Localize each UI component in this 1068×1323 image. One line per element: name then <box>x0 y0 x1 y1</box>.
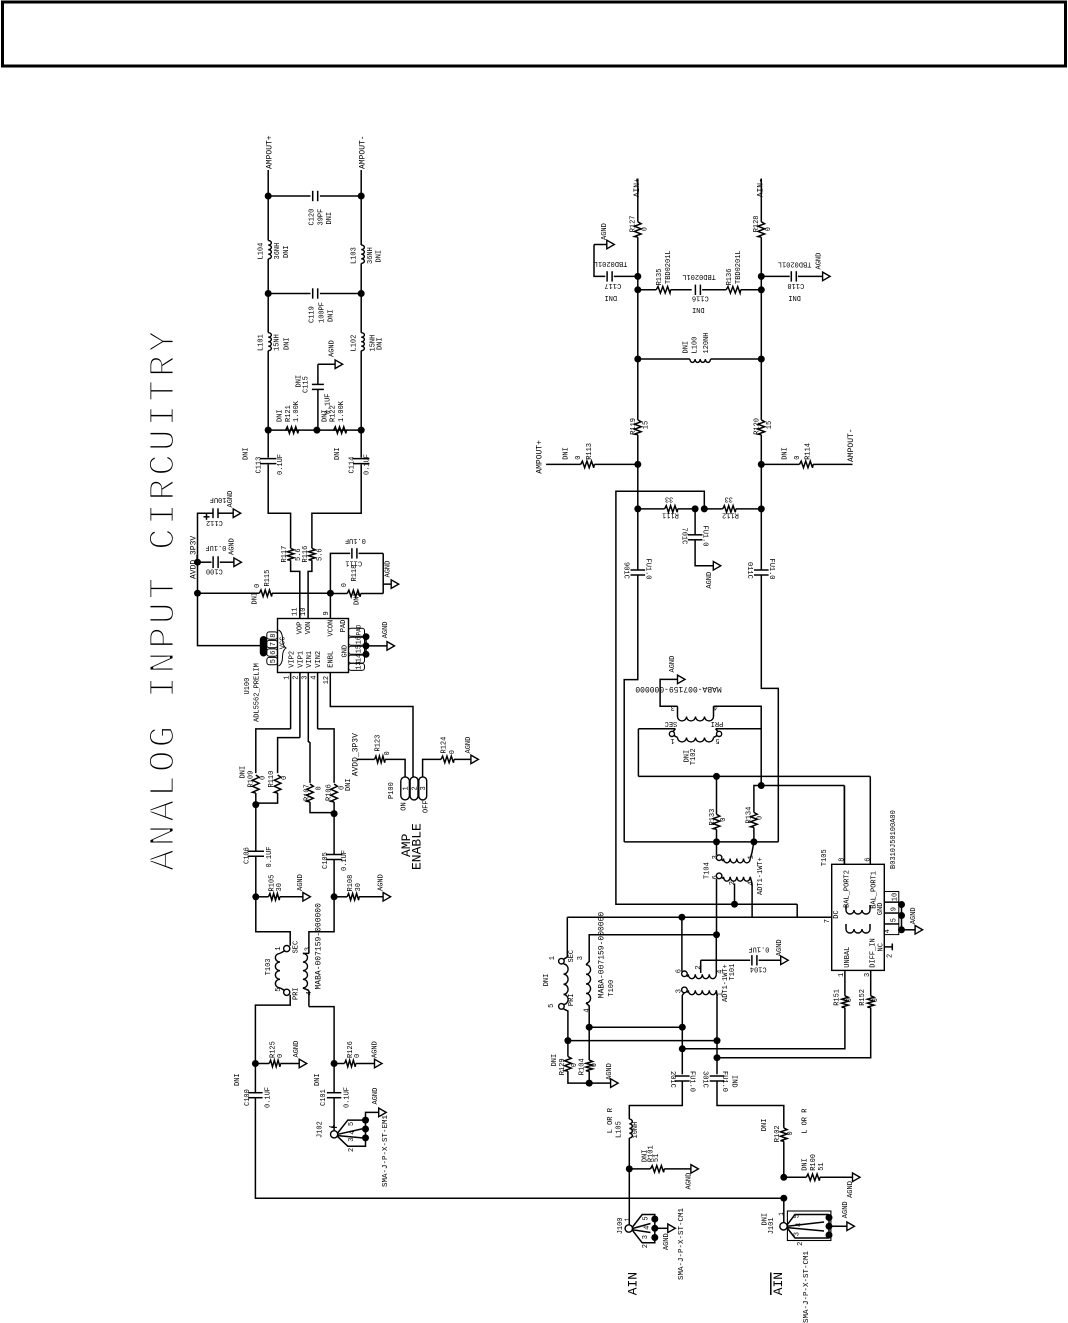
svg-text:L102: L102 <box>351 335 359 352</box>
svg-text:5: 5 <box>891 918 899 922</box>
svg-text:GND: GND <box>877 902 885 915</box>
ground AGND (T105) <box>915 926 923 935</box>
capacitor C102 0.1UF <box>675 1075 690 1077</box>
wire jog left to R117 <box>268 465 290 549</box>
header P100 pin 2 <box>410 777 418 800</box>
inductor L104 36NH DNI <box>268 241 271 259</box>
capacitor C100 0.1UF <box>198 561 212 563</box>
svg-text:AGND: AGND <box>372 1088 380 1105</box>
svg-text:R136: R136 <box>726 269 734 286</box>
capacitor C112 10UF (polarized) <box>198 513 214 562</box>
svg-text:FU1.0: FU1.0 <box>644 559 652 580</box>
inductor L101 15NH DNI <box>268 333 271 351</box>
capacitor C111 0.1UF loop <box>330 553 350 593</box>
svg-text:C113: C113 <box>256 457 264 474</box>
resistor R127 0 <box>635 222 642 237</box>
svg-text:3: 3 <box>712 855 720 859</box>
svg-text:1: 1 <box>284 676 292 680</box>
junction <box>634 505 641 512</box>
svg-text:AGND: AGND <box>601 223 609 240</box>
svg-text:DNI: DNI <box>252 592 260 605</box>
resistor R109 0 DNI <box>256 729 291 773</box>
inductor L105 10NH L OR R <box>629 1119 632 1138</box>
svg-text:DNI: DNI <box>692 305 705 313</box>
svg-text:R114: R114 <box>805 443 813 460</box>
capacitor C101 0.1UF DNI <box>327 1092 341 1094</box>
svg-text:R110: R110 <box>268 771 276 788</box>
svg-text:DNI: DNI <box>802 1158 810 1171</box>
junction <box>634 356 641 363</box>
U100 GND tie dots <box>363 633 370 640</box>
svg-text:DNI: DNI <box>234 1073 242 1086</box>
capacitor C106 0.1UF <box>248 850 264 852</box>
svg-text:AGND: AGND <box>816 253 824 270</box>
resistor R118 0 DNI <box>330 593 347 595</box>
svg-text:DNI: DNI <box>326 212 334 225</box>
node AIN+ <box>637 179 639 222</box>
svg-text:15: 15 <box>643 421 651 429</box>
svg-text:DNI: DNI <box>377 337 385 350</box>
wire top rail <box>268 195 310 197</box>
svg-text:AGND: AGND <box>706 572 714 589</box>
capacitor C110 0.1UF <box>760 509 762 570</box>
svg-text:SMA-J-P-X-ST-EM1: SMA-J-P-X-ST-EM1 <box>382 1114 390 1187</box>
capacitor C119 100PF DNI <box>312 288 314 298</box>
svg-text:R133: R133 <box>709 809 717 826</box>
svg-text:DNI: DNI <box>345 778 353 791</box>
svg-text:30: 30 <box>355 883 363 891</box>
svg-text:ENABLE: ENABLE <box>410 823 425 870</box>
svg-text:IND: IND <box>730 1075 738 1088</box>
resistor R119 15 <box>635 420 642 435</box>
svg-text:5: 5 <box>275 988 283 992</box>
svg-text:PRI: PRI <box>568 993 576 1006</box>
svg-text:C119: C119 <box>309 306 317 323</box>
wire R111 rail <box>638 508 665 510</box>
capacitor C115 0.1UF DNI <box>317 389 319 430</box>
svg-text:011C: 011C <box>745 562 753 579</box>
inductor L102 15NH DNI <box>361 333 364 351</box>
T105 pin 2 NC <box>884 946 892 948</box>
svg-text:FU1.0: FU1.0 <box>701 526 709 547</box>
svg-text:AGND: AGND <box>227 491 235 508</box>
svg-text:R102: R102 <box>774 1125 782 1142</box>
svg-text:DNI: DNI <box>376 250 384 263</box>
wire <box>637 464 639 509</box>
svg-text:DNI: DNI <box>243 447 251 460</box>
wire <box>637 359 639 420</box>
svg-text:0: 0 <box>575 456 583 460</box>
svg-text:ANALOG INPUT CIRCUITRY: ANALOG INPUT CIRCUITRY <box>144 328 185 871</box>
svg-text:C100: C100 <box>206 566 223 574</box>
wire L100 rail <box>638 358 690 360</box>
svg-text:NC: NC <box>878 943 886 951</box>
svg-text:AGND: AGND <box>465 737 473 754</box>
svg-text:AGND: AGND <box>382 621 390 638</box>
svg-text:901C: 901C <box>622 562 630 579</box>
pin 9 VCON <box>329 594 331 619</box>
svg-text:L103: L103 <box>351 247 359 264</box>
node AIN- <box>760 179 762 222</box>
ground AGND (R125) <box>299 1059 307 1068</box>
wire <box>637 276 639 289</box>
transformer T102 MABA-007159-000000 (DNI) <box>677 706 679 716</box>
svg-text:AGND: AGND <box>384 561 392 578</box>
capacitor C104 0.1UF <box>701 959 751 961</box>
inductor L103 36NH DNI <box>361 245 364 263</box>
ground AGND (U100) <box>387 642 395 651</box>
svg-text:R117: R117 <box>281 546 289 563</box>
svg-text:0: 0 <box>591 1063 599 1067</box>
svg-text:AGND: AGND <box>377 874 385 891</box>
svg-text:AGND: AGND <box>847 1181 855 1198</box>
svg-text:0.1UF: 0.1UF <box>341 850 349 871</box>
wire <box>637 435 639 465</box>
svg-text:11: 11 <box>291 608 299 616</box>
wire mid horizontal <box>624 841 778 843</box>
ground AGND (R126) <box>375 1059 383 1068</box>
wire AIN+ rail down <box>624 575 638 842</box>
T105 pin 3 DIFF_IN <box>870 970 872 995</box>
resistor R105 30 <box>256 896 269 898</box>
ground AGND (R105) <box>303 893 311 902</box>
svg-text:DNI: DNI <box>239 766 247 779</box>
wire <box>717 1081 784 1128</box>
svg-text:AGND: AGND <box>776 939 784 956</box>
svg-text:1: 1 <box>402 786 410 790</box>
junction <box>586 1080 593 1087</box>
resistor R135 TBD0201L <box>638 289 656 291</box>
svg-text:DNI: DNI <box>788 293 801 301</box>
svg-text:R115: R115 <box>264 570 272 587</box>
capacitor C120 39PF DNI <box>312 191 314 201</box>
svg-text:3: 3 <box>420 786 428 790</box>
svg-text:AMPOUT+: AMPOUT+ <box>536 440 545 474</box>
svg-text:3: 3 <box>304 947 312 951</box>
svg-text:T102: T102 <box>690 748 698 765</box>
svg-text:C106: C106 <box>243 847 251 864</box>
wire mid rail <box>268 293 310 295</box>
svg-text:1: 1 <box>328 1124 335 1128</box>
svg-text:DNI: DNI <box>334 447 342 460</box>
resistor R111 33 <box>665 506 678 513</box>
junction <box>713 773 720 780</box>
svg-text:AGND: AGND <box>328 340 336 357</box>
svg-text:1: 1 <box>624 1217 631 1221</box>
svg-text:DNI: DNI <box>314 1073 322 1086</box>
svg-text:R128: R128 <box>753 215 761 232</box>
wire <box>637 237 639 276</box>
svg-text:0: 0 <box>354 1054 362 1058</box>
svg-text:AGND: AGND <box>685 1173 693 1190</box>
svg-text:ENBL: ENBL <box>328 651 336 668</box>
node AMPOUT+ (wire) <box>546 463 581 465</box>
svg-text:R135: R135 <box>656 269 664 286</box>
svg-text:9: 9 <box>891 907 899 911</box>
svg-text:VIP2: VIP2 <box>289 651 297 668</box>
svg-text:OFF: OFF <box>422 800 430 813</box>
resistor R134 0 <box>754 786 761 813</box>
svg-text:AGND: AGND <box>910 907 918 924</box>
svg-text:L100: L100 <box>691 337 699 354</box>
resistor R128 0 <box>758 222 765 237</box>
svg-text:10: 10 <box>892 893 900 901</box>
wire AIN- rail down <box>761 575 778 842</box>
wire AVDD down to VCC <box>198 562 261 645</box>
ground AGND (R124) <box>471 755 479 764</box>
wire <box>254 1064 256 1094</box>
wire <box>629 1081 682 1120</box>
svg-text:PAD: PAD <box>355 624 362 635</box>
svg-text:0: 0 <box>341 583 349 587</box>
transformer T104 ADT1-1WT+ <box>716 842 718 855</box>
resistor R110 0 <box>278 738 300 774</box>
svg-text:0: 0 <box>254 584 262 588</box>
svg-text:0: 0 <box>787 1131 795 1135</box>
svg-text:AGND: AGND <box>669 656 677 673</box>
svg-text:15: 15 <box>356 645 364 653</box>
svg-text:0: 0 <box>315 786 323 790</box>
svg-text:33: 33 <box>665 495 673 503</box>
junction <box>265 193 272 200</box>
resistor R152 0 <box>867 996 874 1008</box>
resistor R112 33 <box>723 506 736 513</box>
svg-text:0.1UF: 0.1UF <box>264 1087 272 1108</box>
wire <box>256 897 290 946</box>
capacitor C116 TBD0201L DNI <box>694 285 696 295</box>
capacitor C105 0.1UF <box>326 854 342 856</box>
svg-text:10UF: 10UF <box>210 495 227 503</box>
svg-text:ADL5562_PRELIM: ADL5562_PRELIM <box>253 663 261 722</box>
T105 gnd dots <box>898 901 905 908</box>
wire <box>309 1007 334 1064</box>
junction <box>634 461 641 468</box>
svg-text:VOP: VOP <box>297 622 305 635</box>
svg-text:5.6: 5.6 <box>316 548 324 561</box>
svg-text:0: 0 <box>641 227 649 231</box>
svg-text:AGND: AGND <box>842 1201 850 1218</box>
svg-text:33: 33 <box>724 495 732 503</box>
svg-text:TBD0201L: TBD0201L <box>665 250 673 284</box>
svg-text:0: 0 <box>872 998 880 1002</box>
T105 pin 1 UNBAL <box>844 970 846 995</box>
svg-text:2: 2 <box>887 954 895 958</box>
U100 VCC pin boxes 8 7 6 5 <box>267 632 278 639</box>
junction <box>265 427 272 434</box>
node AMPOUT- (filter) <box>360 170 362 196</box>
svg-text:301C: 301C <box>700 1071 708 1088</box>
svg-text:R129: R129 <box>559 1058 567 1075</box>
svg-text:1: 1 <box>670 736 674 744</box>
junction <box>634 273 641 280</box>
U100 VCC bus blob <box>260 636 267 657</box>
wire <box>267 430 269 458</box>
svg-text:0.1UF: 0.1UF <box>343 1087 351 1108</box>
svg-text:MABA-007159-000000: MABA-007159-000000 <box>315 903 324 990</box>
junction <box>194 559 201 566</box>
junction <box>586 1024 593 1031</box>
svg-text:MABA-007159-000000: MABA-007159-000000 <box>635 684 722 693</box>
resistor R113 0 DNI <box>581 461 595 468</box>
svg-text:B0310J50100A00: B0310J50100A00 <box>890 810 898 869</box>
svg-text:T103: T103 <box>265 958 273 975</box>
junction <box>331 810 338 817</box>
svg-text:0.1UF: 0.1UF <box>345 536 366 544</box>
resistor R126 0 <box>334 1063 344 1065</box>
resistor R151 0 <box>842 996 849 1008</box>
junction <box>252 1060 259 1067</box>
border frame title block <box>3 2 1066 66</box>
capacitor C118 TBD0201L DNI <box>761 275 789 277</box>
svg-text:MABA-007159-000000: MABA-007159-000000 <box>597 912 606 999</box>
ground AGND (R104/R129) <box>611 1079 619 1088</box>
svg-text:1: 1 <box>838 973 846 977</box>
resistor R116 5.6 <box>309 548 316 560</box>
svg-text:R107: R107 <box>303 784 311 801</box>
resistor R115 0 DNI <box>259 590 272 597</box>
svg-text:T104: T104 <box>704 862 712 879</box>
svg-text:4: 4 <box>311 676 319 680</box>
wire <box>902 929 916 931</box>
capacitor C107 0.1UF <box>694 509 696 535</box>
svg-text:3: 3 <box>577 956 585 960</box>
inductor L100 120NH DNI <box>690 359 711 362</box>
resistor R125 0 <box>255 1063 269 1065</box>
wire T100 pin5 to R129 <box>564 1009 568 1057</box>
wire <box>628 1169 630 1225</box>
svg-text:L OR R: L OR R <box>607 1107 615 1133</box>
wire T100 pin4 to C102 <box>589 1026 682 1028</box>
svg-text:P100: P100 <box>388 782 396 799</box>
svg-text:TBD0201L: TBD0201L <box>778 260 812 268</box>
svg-text:C104: C104 <box>750 964 767 972</box>
svg-text:5: 5 <box>348 1122 356 1126</box>
svg-text:R121: R121 <box>285 405 293 422</box>
svg-text:R111: R111 <box>662 510 679 518</box>
wire <box>309 897 334 954</box>
wire <box>267 294 269 333</box>
svg-text:R113: R113 <box>586 443 594 460</box>
wire dc line <box>567 916 831 918</box>
junction T104 ct <box>731 901 738 908</box>
svg-text:6: 6 <box>865 858 873 862</box>
svg-text:AGND: AGND <box>293 1041 301 1058</box>
svg-text:AGND: AGND <box>228 538 236 555</box>
svg-text:39PF: 39PF <box>317 209 325 226</box>
junction <box>678 914 685 921</box>
svg-text:3: 3 <box>642 1235 650 1239</box>
svg-text:0: 0 <box>846 998 854 1002</box>
svg-text:7: 7 <box>270 642 278 646</box>
svg-text:5: 5 <box>794 1214 802 1218</box>
svg-text:3: 3 <box>348 1138 356 1142</box>
svg-text:2: 2 <box>642 1244 650 1248</box>
resistor R107 0 <box>308 741 310 743</box>
svg-text:4: 4 <box>748 881 756 885</box>
wire loop to T104 ct <box>616 491 735 904</box>
svg-text:2: 2 <box>729 881 737 885</box>
ground AGND (J101) <box>847 1222 855 1231</box>
svg-text:DNI: DNI <box>543 974 551 987</box>
ground AGND (C118) <box>823 272 831 281</box>
svg-text:9: 9 <box>323 611 331 615</box>
header P100 pin 1 <box>401 777 410 800</box>
svg-text:R112: R112 <box>722 510 739 518</box>
transformer T100 MABA-007159-000000 (sec DNI) <box>559 958 565 964</box>
svg-text:DNI: DNI <box>781 447 789 460</box>
svg-text:DNI: DNI <box>284 337 292 350</box>
svg-text:1.00K: 1.00K <box>293 400 301 422</box>
svg-text:30: 30 <box>276 883 284 891</box>
svg-text:AGND: AGND <box>606 1063 614 1080</box>
wire pin6 down <box>716 879 718 935</box>
svg-text:TBD0201L: TBD0201L <box>594 259 628 267</box>
svg-text:10: 10 <box>300 608 308 616</box>
wire T102 pin1 left <box>637 729 639 777</box>
svg-text:C112: C112 <box>206 518 223 526</box>
svg-text:1: 1 <box>778 1212 785 1216</box>
svg-text:DNI: DNI <box>551 1054 559 1067</box>
svg-text:R123: R123 <box>375 735 383 752</box>
wire <box>681 1027 683 1074</box>
pin 12 ENBL <box>330 673 413 777</box>
wire T102 pin4 down <box>714 706 762 785</box>
node AMPOUT+ (filter) <box>267 170 269 196</box>
junction <box>265 290 272 297</box>
svg-text:C116: C116 <box>692 294 709 302</box>
svg-text:0: 0 <box>259 776 267 780</box>
svg-text:T105: T105 <box>821 849 829 866</box>
svg-text:4: 4 <box>796 1223 804 1227</box>
resistor R121 1.00K DNI <box>286 427 299 434</box>
svg-text:AGND: AGND <box>663 1233 671 1250</box>
svg-text:100PF: 100PF <box>318 302 326 323</box>
T105 gnd pin boxes 10 9 5 4 <box>884 892 899 902</box>
svg-text:C105: C105 <box>322 852 330 869</box>
wire <box>783 1198 785 1222</box>
svg-text:701C: 701C <box>680 528 688 545</box>
svg-text:VCON: VCON <box>327 620 335 637</box>
svg-text:R151: R151 <box>833 989 841 1006</box>
svg-text:AVDD_3P3V: AVDD_3P3V <box>352 733 361 776</box>
svg-text:1.00K: 1.00K <box>338 400 346 422</box>
svg-text:5: 5 <box>270 659 278 663</box>
ground AGND (R101) <box>691 1165 699 1174</box>
resistor R129 0 DNI <box>565 1057 572 1072</box>
wire <box>255 805 257 852</box>
resistor R133 0 <box>716 776 718 814</box>
svg-text:T101: T101 <box>729 964 737 981</box>
svg-text:2: 2 <box>797 1242 805 1246</box>
T105 pin 8 <box>843 786 845 865</box>
svg-text:51: 51 <box>653 1154 661 1162</box>
svg-text:R100: R100 <box>810 1154 818 1171</box>
svg-text:R106: R106 <box>326 784 334 801</box>
svg-text:C101: C101 <box>320 1089 328 1106</box>
svg-text:0.1UF: 0.1UF <box>266 846 274 867</box>
svg-text:J101: J101 <box>768 1217 776 1234</box>
svg-text:15: 15 <box>766 421 774 429</box>
svg-text:SEC: SEC <box>292 941 300 954</box>
junction <box>679 1024 686 1031</box>
svg-text:DNI: DNI <box>321 409 329 422</box>
svg-text:DNI: DNI <box>604 293 617 301</box>
resistor R136 TBD0201L <box>702 289 726 291</box>
svg-text:L101: L101 <box>258 334 266 351</box>
ground AGND (C115) <box>335 360 343 369</box>
wire agnd stub C117 <box>594 244 607 246</box>
svg-text:PRI: PRI <box>292 987 300 1000</box>
